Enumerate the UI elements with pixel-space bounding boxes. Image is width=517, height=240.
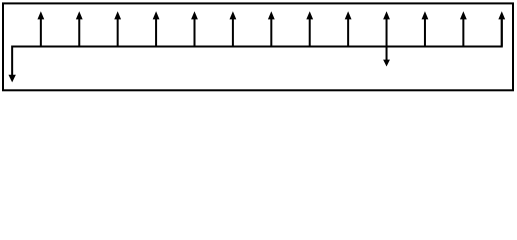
arrow up 5 [191, 11, 198, 46]
wire: beam line with left drop and right rise [12, 19, 502, 75]
arrow up 9 [345, 11, 352, 46]
arrow up 2 [76, 11, 83, 46]
arrow up 6 [230, 11, 237, 46]
arrow up 8 [306, 11, 313, 46]
arrow up 3 [114, 11, 121, 46]
arrow up 11 [422, 11, 429, 46]
arrow up 1 [37, 11, 44, 46]
arrow up 10 (double-ended) [383, 11, 390, 46]
arrow up 7 [268, 11, 275, 46]
border frame [3, 3, 513, 90]
arrow down-left head [8, 75, 15, 83]
arrow up 4 [153, 11, 160, 46]
arrow up 12 [460, 11, 467, 46]
arrow down 10 [383, 47, 390, 67]
arrow up 13 [498, 11, 505, 46]
